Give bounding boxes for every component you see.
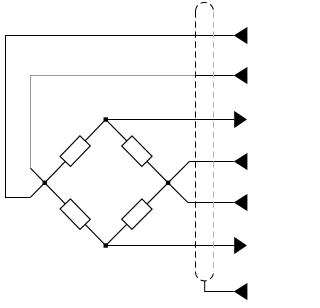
pin 7 arrow (left-pointing terminal) xyxy=(234,283,248,300)
wire arm T-R (bridge arm top node to right node) xyxy=(106,120,168,183)
cable shield left side (dashed) xyxy=(195,11,197,272)
resistor R2 (top-right bridge element) xyxy=(122,136,152,166)
wire arm R-B (bridge arm right node to bottom node) xyxy=(106,183,168,246)
wire arm L-T (bridge arm left node to top node) xyxy=(45,120,106,183)
pin 5 arrow (left-pointing terminal) xyxy=(234,194,248,211)
pin 3 arrow (right-pointing terminal) xyxy=(234,111,247,128)
wire W2 (remote sense, gray segment from connector to left node) xyxy=(31,76,196,169)
wire W3 (signal + from bridge top node to pin 3) xyxy=(106,119,235,121)
node L (bridge left junction) xyxy=(43,181,47,185)
cable shield right side (gray dashed) xyxy=(213,11,215,272)
wire W2b (black segment of sense wire inside connector to pin 2) xyxy=(196,75,234,77)
resistor R4 (bottom-right bridge element) xyxy=(122,199,152,229)
node R (bridge right junction) xyxy=(166,181,170,185)
resistor R3 (bottom-left bridge element) xyxy=(60,199,90,230)
wire W1 (excitation +, outer black loop from pin 1 to bridge left node) xyxy=(6,36,234,198)
wire arm L-B (bridge arm left node to bottom node) xyxy=(45,183,106,246)
cable shield bottom arc (dashed) xyxy=(196,272,214,281)
pin 1 arrow (left-pointing terminal) xyxy=(234,27,248,44)
wire W4 (sense wire from bridge right node up to pin 4) xyxy=(168,162,189,183)
wire W6 (signal - from bridge bottom node to pin 6) xyxy=(106,245,235,247)
wire W5 (excitation - wire from bridge right node down to pin 5) xyxy=(168,183,188,203)
pin 2 arrow (left-pointing terminal) xyxy=(234,67,248,84)
wire W7 (shield drain wire from cable shield bottom to pin 7) xyxy=(205,281,234,292)
cable shield top arc (dashed) xyxy=(196,2,214,11)
node B (bridge bottom junction) xyxy=(104,243,108,247)
wire W2a (black diagonal of sense wire into left node) xyxy=(31,168,45,183)
pin 4 arrow (left-pointing terminal) xyxy=(234,153,248,170)
node T (bridge top junction) xyxy=(104,117,108,121)
pin 6 arrow (right-pointing terminal) xyxy=(234,237,247,254)
resistor R1 (top-left bridge element) xyxy=(60,136,90,167)
